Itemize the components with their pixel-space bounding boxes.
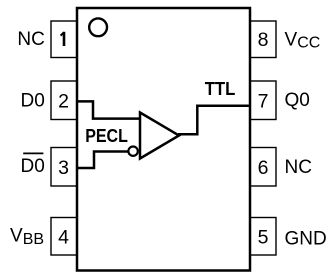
pin 1 box xyxy=(51,21,77,58)
pin 8 box xyxy=(250,21,276,58)
svg-text:8: 8 xyxy=(258,29,269,51)
svg-text:4: 4 xyxy=(58,226,69,248)
pin 3 box xyxy=(51,148,77,187)
pin 7 box xyxy=(250,81,276,120)
svg-text:GND: GND xyxy=(285,228,327,249)
svg-text:7: 7 xyxy=(258,90,269,112)
wire pin2 to buffer noninverting input xyxy=(77,101,140,118)
svg-text:VCC: VCC xyxy=(285,29,321,51)
svg-text:VBB: VBB xyxy=(10,226,44,249)
svg-text:Q0: Q0 xyxy=(285,90,310,111)
pin 5 box xyxy=(250,218,276,256)
pin-1 indicator circle xyxy=(89,18,107,36)
svg-text:PECL: PECL xyxy=(85,125,128,146)
label D0-bar overline (pin 3) xyxy=(23,152,43,154)
svg-text:TTL: TTL xyxy=(205,78,236,99)
wire pin3 to inverting bubble xyxy=(77,152,128,169)
svg-text:D0: D0 xyxy=(21,90,45,111)
svg-text:6: 6 xyxy=(258,157,269,179)
svg-text:NC: NC xyxy=(285,157,312,178)
pin 6 box xyxy=(250,148,276,187)
pin 1 number xyxy=(61,32,64,35)
IC body U1 (8-pin package outline) xyxy=(77,8,250,271)
svg-text:3: 3 xyxy=(58,157,69,179)
svg-text:D0: D0 xyxy=(21,156,45,177)
inverting input bubble xyxy=(128,147,137,156)
buffer triangle U2 (PECL receiver) xyxy=(140,113,179,159)
pin 2 box xyxy=(51,81,77,120)
svg-text:5: 5 xyxy=(258,226,269,248)
svg-text:NC: NC xyxy=(17,29,44,50)
wire buffer output to pin7 xyxy=(178,106,250,135)
pin 4 box xyxy=(51,218,77,256)
svg-text:2: 2 xyxy=(58,90,69,112)
